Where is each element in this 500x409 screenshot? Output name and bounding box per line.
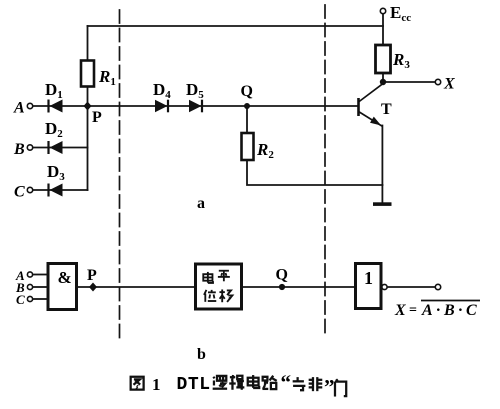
resistor R3 <box>376 45 391 73</box>
svg-text:DTL: DTL <box>177 375 211 395</box>
wire: level-shift box to inverter box <box>242 286 356 288</box>
wire: C to AND gate <box>33 298 48 300</box>
diode D2 <box>49 141 63 154</box>
input terminal B (b) <box>27 284 32 289</box>
output terminal X <box>435 79 440 84</box>
svg-text:A·B·C: A·B·C <box>421 302 477 319</box>
wire: node Q down to R2 <box>246 106 248 133</box>
svg-text:R1: R1 <box>98 67 116 88</box>
svg-text:Ecc: Ecc <box>390 3 411 24</box>
wire: B row <box>33 147 88 149</box>
dashed separator line 1 <box>119 10 121 338</box>
wire: R2 bottom to emitter column <box>247 160 383 185</box>
wire: AND gate to level-shift box <box>77 286 196 288</box>
transistor T <box>359 84 384 127</box>
label 平 (in box) <box>218 271 230 282</box>
svg-text:P: P <box>87 267 97 284</box>
wire: R3 bottom to collector node <box>382 73 384 82</box>
svg-text:D3: D3 <box>47 162 65 183</box>
caption 门 <box>335 379 346 396</box>
wire: R1 bottom to node P <box>87 87 89 107</box>
input terminal A (b) <box>27 272 32 277</box>
wire: R1 corner vertical down to R1 top <box>87 26 89 61</box>
svg-text:A: A <box>13 100 25 117</box>
caption 图 <box>131 377 144 390</box>
svg-text:R2: R2 <box>256 140 274 161</box>
svg-text:X: X <box>394 302 406 319</box>
diode D1 <box>49 100 63 113</box>
caption 与 <box>293 377 306 390</box>
inverter output bubble <box>382 284 387 289</box>
svg-text:P: P <box>92 109 102 126</box>
svg-text:C: C <box>14 184 25 201</box>
diode D3 <box>49 184 63 197</box>
label 位 (in box) <box>204 290 216 302</box>
svg-text:R3: R3 <box>392 50 410 71</box>
svg-text:=: = <box>409 303 417 318</box>
svg-text:X: X <box>443 76 455 93</box>
wire: A to AND gate <box>33 274 48 276</box>
wire: collector node to output X <box>383 81 435 83</box>
label 移 (in box) <box>219 289 232 302</box>
inverter box <box>356 264 382 309</box>
wire: main row A-to-transistor-base <box>33 105 359 107</box>
collector node dot <box>380 79 386 85</box>
svg-text:1: 1 <box>152 375 161 394</box>
output terminal X (b) <box>435 284 440 289</box>
diode D5 <box>189 100 202 113</box>
svg-text:D5: D5 <box>186 80 204 101</box>
wire: Ecc terminal vertical <box>382 14 384 45</box>
svg-text:D1: D1 <box>45 80 63 101</box>
svg-text:T: T <box>381 101 392 118</box>
input terminal B <box>27 145 32 150</box>
wire: B to AND gate <box>33 286 48 288</box>
caption 非 <box>309 377 323 391</box>
svg-text:”: ” <box>324 375 335 399</box>
wire: emitter down to ground <box>381 126 383 203</box>
input terminal C <box>27 187 32 192</box>
input terminal C (b) <box>27 296 32 301</box>
resistor R2 <box>242 133 254 160</box>
svg-text:a: a <box>197 195 205 212</box>
svg-text:C: C <box>16 292 25 307</box>
level shift box <box>196 264 242 309</box>
node Q (circuit b) <box>279 284 285 290</box>
caption 电 <box>248 375 259 388</box>
node P (circuit b) <box>89 283 97 292</box>
label X = A·B·C with overline <box>394 301 480 320</box>
input terminal A <box>27 103 32 108</box>
node Q (junction dot) <box>244 103 250 109</box>
wire: inverter bubble to terminal X <box>387 286 435 288</box>
ground <box>373 202 392 206</box>
svg-text:1: 1 <box>364 268 373 288</box>
svg-text:“: “ <box>281 370 292 394</box>
caption: 图 1 DTL逻辑电路"与非"门 <box>131 370 347 399</box>
AND gate box (circuit b) <box>48 264 77 310</box>
svg-text:&: & <box>58 268 72 287</box>
wire: left vertical joining B,C rows to node P <box>87 106 89 190</box>
resistor R1 <box>81 61 94 87</box>
power terminal Ecc <box>380 8 385 13</box>
svg-text:Q: Q <box>241 83 253 100</box>
svg-text:Q: Q <box>276 267 288 284</box>
svg-text:D2: D2 <box>45 119 63 140</box>
svg-text:b: b <box>197 346 206 363</box>
svg-text:D4: D4 <box>153 80 171 101</box>
diode D4 <box>155 100 168 113</box>
caption 逻 <box>213 376 227 389</box>
svg-text:B: B <box>13 141 25 158</box>
label 电 (in box) <box>203 272 213 283</box>
caption 辑 <box>229 375 244 390</box>
dashed separator line 2 <box>324 5 326 338</box>
node P (junction dot) <box>84 102 92 111</box>
wire: top rail from R1 corner to Ecc column <box>88 25 384 27</box>
wire: C row <box>33 189 88 191</box>
caption 路 <box>262 376 276 389</box>
